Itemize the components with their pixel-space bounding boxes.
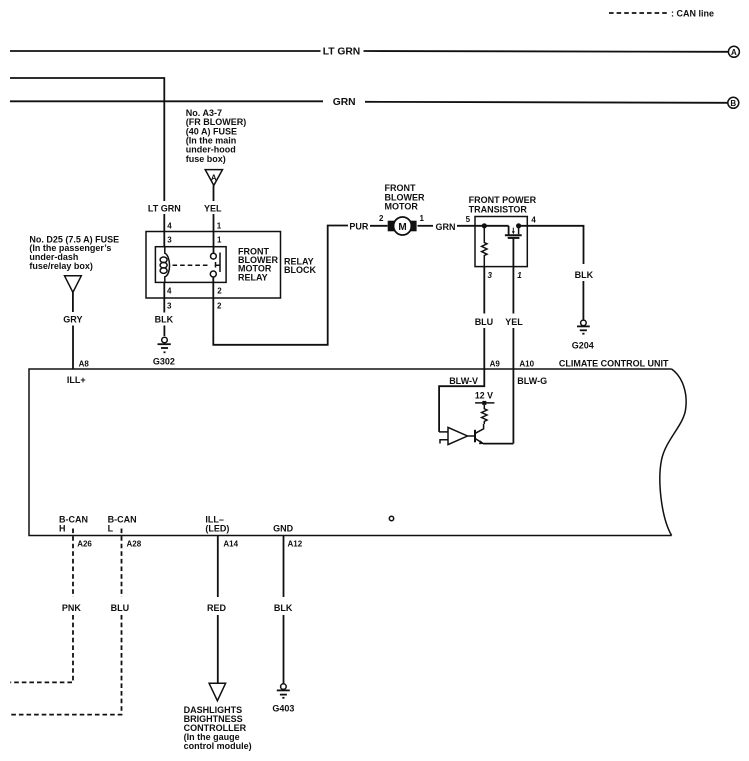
svg-text:12 V: 12 V	[475, 391, 493, 401]
wire transistor pin 3 down (BLU)	[483, 267, 485, 314]
svg-text:3: 3	[167, 302, 172, 311]
stray mark	[389, 516, 393, 520]
wire BLU dashed lower	[9, 615, 122, 715]
wire emitter to A10 net	[483, 443, 514, 445]
ground G403 symbol	[281, 684, 287, 690]
wire PUR to motor	[370, 225, 388, 227]
wire B-CAN H dashed (PNK)	[72, 529, 74, 598]
wire relay pin 2 to blower motor	[213, 226, 348, 345]
svg-text:A28: A28	[127, 540, 142, 549]
wire LT GRN bus right segment	[364, 50, 729, 53]
transistor Q emitter	[476, 439, 483, 444]
resistor R inside transistor box	[482, 226, 487, 267]
front power transistor box	[475, 217, 527, 267]
wire GRY to A8	[72, 326, 74, 370]
svg-text:control module): control module)	[184, 741, 252, 751]
svg-text:fuse box): fuse box)	[186, 154, 226, 164]
svg-text:PUR: PUR	[349, 222, 369, 232]
fuse A3-7 symbol (triangle with A)	[205, 170, 222, 186]
svg-text:3: 3	[488, 271, 493, 280]
transistor Q collector	[476, 424, 484, 433]
svg-text:A: A	[731, 48, 737, 57]
svg-text:GRN: GRN	[333, 97, 356, 108]
svg-text:YEL: YEL	[204, 203, 222, 213]
connector circle A	[728, 46, 739, 57]
12V supply rail	[475, 402, 494, 404]
fuse D25 symbol (open triangle)	[65, 276, 82, 293]
svg-text:A9: A9	[490, 359, 501, 368]
svg-text:5: 5	[466, 215, 471, 224]
svg-text:G302: G302	[153, 357, 175, 367]
svg-text:3: 3	[167, 236, 172, 245]
wire GRN bus right segment	[365, 102, 728, 103]
svg-text:: CAN line: : CAN line	[671, 9, 714, 19]
ground G204 symbol	[581, 320, 587, 326]
svg-text:PNK: PNK	[62, 603, 82, 613]
wire BLU to A9	[483, 328, 485, 369]
wire A10 internal BLW-G	[512, 369, 514, 444]
svg-text:4: 4	[167, 287, 172, 296]
svg-text:CLIMATE CONTROL UNIT: CLIMATE CONTROL UNIT	[559, 358, 669, 368]
svg-text:1: 1	[517, 271, 522, 280]
wire fuse to GRY	[72, 292, 74, 312]
transistor Q base bar	[474, 430, 476, 443]
svg-text:BLK: BLK	[274, 603, 293, 613]
blower motor M symbol	[388, 221, 395, 232]
svg-text:BLU: BLU	[475, 317, 494, 327]
svg-text:2: 2	[217, 302, 222, 311]
relay actuation dashed link	[173, 264, 210, 266]
wire transistor pin 1 down (YEL)	[512, 267, 514, 314]
svg-text:ILL+: ILL+	[67, 375, 86, 385]
arrow to dashlights controller	[209, 683, 226, 700]
climate control unit box (torn right edge)	[29, 369, 672, 536]
wire B-CAN L dashed (BLU)	[121, 529, 123, 598]
svg-text:YEL: YEL	[505, 317, 523, 327]
svg-text:4: 4	[167, 222, 172, 231]
transistor source lead down (pin 1)	[512, 238, 514, 267]
wire ILL- (RED)	[217, 536, 219, 598]
wire relay coil to ground	[163, 282, 165, 312]
svg-text:G204: G204	[572, 340, 594, 350]
relay contact bottom (pin 2)	[210, 271, 216, 277]
wire PNK dashed lower	[10, 615, 73, 682]
relay block outer box	[146, 232, 281, 299]
svg-text:2: 2	[379, 214, 384, 223]
svg-text:RED: RED	[207, 603, 227, 613]
node dot on pin4 net	[516, 223, 521, 228]
svg-text:GRN: GRN	[436, 222, 456, 232]
relay contact top (pin 1)	[211, 253, 217, 259]
wire GRN bus (net B)	[10, 100, 323, 102]
wire GRN into transistor box	[457, 225, 509, 227]
svg-text:BLOCK: BLOCK	[284, 265, 316, 275]
svg-text:MOTOR: MOTOR	[385, 202, 419, 212]
legend: CAN line dashed sample	[609, 12, 669, 14]
svg-text:BLW-G: BLW-G	[517, 376, 547, 386]
wire branch feeding relay pin 4	[10, 78, 164, 201]
wire A9 internal BLW-V	[439, 369, 484, 432]
svg-text:4: 4	[531, 216, 536, 225]
wire BLK to G204	[582, 281, 584, 320]
svg-text:1: 1	[217, 236, 222, 245]
wire LT GRN bus (net A)	[10, 50, 321, 52]
svg-text:A10: A10	[519, 359, 534, 368]
relay armature tick	[216, 262, 221, 265]
svg-text:RELAY: RELAY	[238, 272, 268, 282]
ground G302 symbol	[162, 337, 168, 343]
svg-text:LT GRN: LT GRN	[148, 203, 181, 213]
svg-text:BLU: BLU	[111, 603, 130, 613]
buffer input stub upper	[439, 431, 448, 433]
svg-text:M: M	[398, 222, 406, 233]
svg-text:BLW-V: BLW-V	[449, 376, 478, 386]
wire YEL from fuse to relay	[213, 185, 215, 201]
buffer amp triangle	[448, 427, 468, 444]
relay coil	[165, 247, 170, 283]
relay FRONT BLOWER MOTOR RELAY inner box	[155, 247, 226, 283]
wire LT GRN into relay	[163, 214, 165, 247]
wire pin4 to G204	[519, 226, 584, 264]
wire GRN motor to transistor	[418, 225, 434, 227]
svg-text:BLK: BLK	[155, 315, 174, 325]
svg-text:L: L	[108, 524, 114, 534]
svg-text:(LED): (LED)	[205, 524, 229, 534]
wire BLK lower	[283, 615, 285, 684]
relay switch blade	[219, 253, 221, 273]
svg-text:1: 1	[420, 214, 425, 223]
svg-text:A8: A8	[79, 359, 90, 368]
svg-text:BLK: BLK	[575, 270, 594, 280]
wire RED lower	[217, 615, 219, 683]
svg-text:B: B	[730, 99, 736, 108]
svg-text:TRANSISTOR: TRANSISTOR	[469, 204, 528, 214]
wire buffer out to transistor base	[468, 435, 475, 437]
wire YEL to A10	[512, 328, 514, 369]
svg-text:fuse/relay box): fuse/relay box)	[29, 261, 93, 271]
transistor element (power FET)	[508, 226, 510, 235]
svg-text:A12: A12	[288, 540, 303, 549]
svg-text:A: A	[211, 173, 217, 182]
connector circle B	[728, 97, 739, 108]
svg-text:1: 1	[217, 222, 222, 231]
wire BLK to G302	[163, 326, 165, 337]
square node on rail	[482, 401, 486, 405]
wire YEL into relay	[213, 214, 215, 253]
svg-text:G403: G403	[272, 703, 294, 713]
node dot on pin5 net	[482, 223, 487, 228]
svg-text:2: 2	[217, 287, 222, 296]
svg-text:A14: A14	[223, 540, 238, 549]
buffer input stub lower	[440, 440, 448, 444]
svg-text:GND: GND	[273, 524, 294, 534]
svg-text:GRY: GRY	[63, 315, 82, 325]
svg-text:A26: A26	[77, 540, 92, 549]
wire GND (BLK)	[283, 536, 285, 598]
small arrow inside transistor	[512, 228, 514, 232]
resistor to 12V	[482, 405, 487, 424]
svg-text:LT GRN: LT GRN	[323, 47, 361, 58]
svg-text:FRONT POWER: FRONT POWER	[469, 195, 537, 205]
svg-text:H: H	[59, 524, 66, 534]
